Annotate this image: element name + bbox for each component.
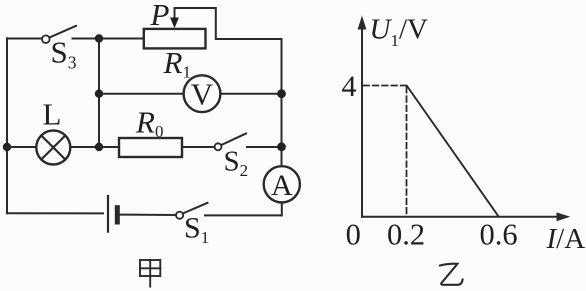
graph data line bbox=[407, 86, 499, 217]
wire R0 to S2 bbox=[182, 146, 215, 148]
wire left bus bbox=[6, 38, 8, 213]
label jia (甲) bbox=[140, 260, 160, 287]
switch S1 bbox=[176, 203, 208, 219]
svg-text:U1/V: U1/V bbox=[370, 14, 429, 51]
wire lamp row left bbox=[7, 146, 36, 148]
node junction V row left bbox=[95, 90, 103, 98]
node junction top bbox=[95, 34, 103, 42]
lamp L bbox=[36, 131, 70, 165]
rheostat slider arrow P bbox=[170, 8, 179, 28]
wire V row left bbox=[99, 93, 184, 95]
switch S2 bbox=[215, 134, 247, 151]
svg-text:0.6: 0.6 bbox=[480, 218, 518, 252]
wire S3 to node bbox=[73, 38, 100, 40]
wire right bus upper bbox=[281, 39, 283, 167]
label yi (乙) bbox=[440, 264, 463, 285]
rheostat R1 body bbox=[144, 29, 206, 49]
node junction S2 row right bbox=[277, 142, 286, 151]
dashed line vertical at 0.2 bbox=[406, 87, 408, 216]
svg-text:L: L bbox=[43, 97, 62, 132]
svg-text:S1: S1 bbox=[184, 212, 209, 248]
dashed line horizontal at 4 bbox=[364, 85, 407, 87]
wire S2 to bus bbox=[247, 146, 282, 148]
wire middle bus bbox=[98, 39, 100, 148]
resistor R0 body bbox=[119, 138, 182, 157]
wire node to R1 bbox=[99, 38, 144, 40]
svg-text:0.2: 0.2 bbox=[387, 218, 425, 252]
wire ammeter down bbox=[281, 202, 283, 215]
voltmeter V bbox=[184, 75, 221, 112]
graph X axis bbox=[362, 212, 570, 221]
svg-text:V: V bbox=[191, 77, 214, 112]
svg-text:4: 4 bbox=[342, 70, 357, 103]
wire V row right bbox=[220, 93, 281, 95]
svg-text:R0: R0 bbox=[135, 105, 163, 142]
node junction lamp row middle bbox=[95, 143, 103, 151]
svg-text:P: P bbox=[150, 0, 170, 32]
svg-text:I/A: I/A bbox=[546, 223, 586, 255]
svg-text:R1: R1 bbox=[163, 45, 191, 82]
wire bottom right segment bbox=[205, 214, 282, 216]
svg-text:S2: S2 bbox=[224, 146, 249, 181]
graph Y axis bbox=[358, 16, 367, 217]
wire bottom left segment bbox=[7, 212, 103, 214]
wire lamp to node bbox=[70, 146, 99, 148]
svg-text:S3: S3 bbox=[51, 35, 77, 73]
battery cell bbox=[108, 196, 117, 232]
node junction V row right bbox=[277, 89, 286, 98]
node junction lamp row left bus bbox=[3, 143, 11, 151]
wire slider to right bus bbox=[175, 8, 282, 39]
svg-text:0: 0 bbox=[346, 218, 361, 252]
switch S3 bbox=[42, 26, 76, 43]
wire battery to S1 bbox=[119, 214, 176, 216]
wire top row left segment bbox=[7, 38, 42, 40]
svg-text:A: A bbox=[271, 169, 293, 202]
ammeter A bbox=[264, 166, 300, 202]
wire node to R0 bbox=[99, 146, 119, 148]
